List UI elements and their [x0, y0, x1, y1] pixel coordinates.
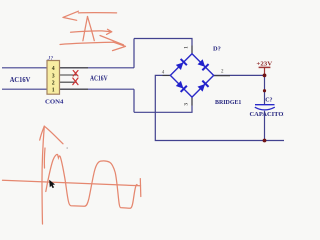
connector J? body	[47, 61, 60, 95]
diode top-left (anode pin 4, cathode pin 1)	[175, 59, 187, 71]
connector J? CON4 pin stubs	[60, 68, 89, 89]
tiny stray speck	[66, 147, 68, 149]
bridge rectifier D? diamond outline	[170, 54, 213, 97]
diode top-right (anode pin 1, cathode pin 2)	[197, 59, 209, 71]
svg-text:3: 3	[52, 73, 55, 79]
svg-text:BRIDGE1: BRIDGE1	[215, 99, 241, 106]
wire lower rail to bridge pin 3	[134, 97, 192, 112]
svg-text:AC16V: AC16V	[90, 76, 108, 83]
wire +23V node down to capacitor	[264, 75, 266, 104]
junction node at bottom rail	[263, 139, 267, 143]
svg-text:+23V: +23V	[256, 61, 272, 68]
wire upper AC left segment	[2, 67, 134, 69]
annotation: hand-drawn sine waveform	[46, 154, 137, 208]
svg-text:J?: J?	[48, 56, 54, 62]
wire bridge pin 2 to +23V node	[214, 74, 265, 76]
wire lower AC left segment	[2, 88, 134, 90]
capacitor C? symbol	[255, 105, 275, 110]
svg-text:4: 4	[52, 66, 55, 72]
svg-text:1: 1	[52, 88, 55, 94]
mouse cursor	[49, 180, 55, 188]
annotation: top-left red arrow pointing left	[63, 11, 117, 20]
svg-text:C?: C?	[265, 98, 272, 104]
no-connect X on pin 3	[73, 71, 78, 77]
power port +23V	[256, 61, 272, 76]
bridge pin stubs (gray)	[163, 46, 231, 106]
svg-text:D?: D?	[213, 46, 221, 53]
junction node capacitor top pin	[263, 89, 266, 92]
diode bottom-left (anode pin 4, cathode pin 3)	[175, 80, 187, 92]
svg-text:2: 2	[52, 81, 55, 87]
wire lower AC drop	[133, 89, 135, 112]
annotation: red lambda / A shape	[71, 17, 112, 41]
junction node at +23V	[263, 74, 267, 78]
svg-text:AC16V: AC16V	[10, 77, 31, 84]
diode bottom-right (anode pin 3, cathode pin 2)	[197, 81, 209, 93]
annotation: red arrow pointing right below	[60, 36, 126, 51]
annotation: horizontal axis line	[3, 179, 141, 197]
wire capacitor bottom to bottom rail	[264, 111, 266, 141]
wire bridge pin 4 to bottom rail	[155, 75, 284, 140]
no-connect X on pin 2	[73, 78, 78, 85]
wire top rail to bridge pin 1	[134, 39, 192, 54]
annotation: vertical axis with arrow (bottom sketch)	[40, 126, 63, 224]
svg-text:CAPACITOR: CAPACITOR	[250, 111, 285, 118]
wire upper AC vertical riser	[133, 39, 135, 68]
svg-text:CON4: CON4	[45, 98, 64, 105]
